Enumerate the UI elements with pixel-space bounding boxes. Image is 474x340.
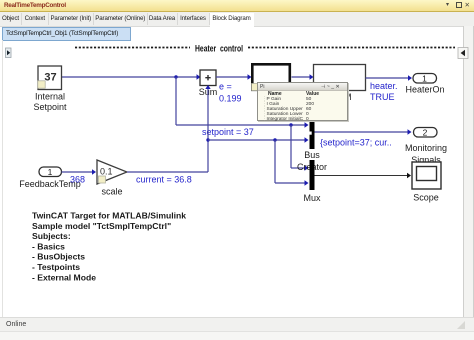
svg-text:2: 2: [423, 127, 428, 137]
svg-text:1: 1: [422, 73, 427, 83]
svg-text:Sample model "TctSmplTempCtrl": Sample model "TctSmplTempCtrl": [32, 221, 171, 231]
sum block Sum: [199, 70, 218, 97]
svg-text:HeaterOn: HeaterOn: [405, 85, 444, 95]
bus creator bar: [310, 119, 315, 149]
svg-text:Subjects:: Subjects:: [32, 231, 71, 241]
svg-text:heater.: heater.: [370, 81, 398, 91]
status bar: [0, 317, 474, 332]
block PWM: [314, 65, 366, 103]
svg-text:TRUE: TRUE: [370, 92, 395, 102]
svg-text:368: 368: [70, 175, 85, 185]
tab strip: [0, 12, 474, 27]
wire current branch to Mux input 2: [275, 140, 309, 186]
left pane toggle button: [6, 48, 12, 58]
svg-text:- BusObjects: - BusObjects: [32, 252, 85, 262]
svg-text:- Basics: - Basics: [32, 241, 65, 251]
heading Heater control: [75, 44, 455, 54]
svg-text:Scope: Scope: [413, 193, 439, 203]
label Bus Creator: [297, 150, 327, 172]
block Internal Setpoint: [33, 66, 67, 112]
annotation text block: [32, 211, 186, 283]
selected object row: [2, 27, 131, 41]
tooltip popup PI parameters: [257, 82, 348, 121]
window buttons: [446, 1, 449, 8]
svg-text:0.199: 0.199: [219, 94, 242, 104]
mux bar: [310, 160, 315, 190]
wire setpoint branch to Mux input 1: [291, 125, 309, 171]
svg-text:e =: e =: [219, 82, 232, 92]
svg-text:Mux: Mux: [303, 193, 321, 203]
svg-text:scale: scale: [101, 187, 122, 197]
svg-text:Setpoint: Setpoint: [33, 102, 67, 112]
svg-text:- External Mode: - External Mode: [32, 272, 96, 282]
wire PWM to HeaterOn outport: [366, 75, 413, 80]
svg-text:{setpoint=37; cur..: {setpoint=37; cur..: [320, 138, 392, 148]
wire PI to PWM: [292, 74, 314, 79]
wire setpoint branch down and right to Bus Creator: [176, 77, 309, 128]
wire Internal Setpoint to Sum: [62, 74, 201, 79]
popup title bar: [258, 83, 347, 91]
svg-text:Internal: Internal: [35, 92, 65, 102]
wire Bus Creator to Monitoring outport: [315, 129, 412, 134]
svg-text:setpoint = 37: setpoint = 37: [202, 127, 254, 137]
outport 2 Monitoring Signals: [405, 127, 447, 165]
svg-text:TwinCAT Target for MATLAB/Simu: TwinCAT Target for MATLAB/Simulink: [32, 211, 186, 221]
right scroll strip: [463, 26, 474, 331]
window title bar: [0, 0, 474, 12]
right scroll button: [458, 48, 468, 59]
svg-text:Bus: Bus: [304, 150, 320, 160]
svg-text:current = 36.8: current = 36.8: [136, 175, 192, 185]
wire Mux to Scope: [315, 173, 412, 178]
svg-text:- Testpoints: - Testpoints: [32, 262, 80, 272]
wire current branch to Bus Creator input 2: [206, 137, 308, 142]
gain block scale: [97, 160, 127, 197]
wire scale to Sum bottom input: [127, 85, 211, 172]
wire FeedbackTemp to scale: [62, 169, 97, 174]
scope block: [412, 162, 441, 203]
block PI controller: [252, 64, 290, 90]
svg-text:37: 37: [44, 72, 56, 84]
inport 1 FeedbackTemp: [19, 167, 81, 189]
svg-text:Heater control: Heater control: [195, 44, 243, 54]
svg-text:1: 1: [48, 167, 53, 177]
wire Sum to PI: [216, 74, 252, 79]
outport 1 HeaterOn: [405, 73, 444, 94]
popup grid: [268, 91, 282, 97]
svg-text:0.1: 0.1: [100, 167, 113, 177]
resize grip bottom right: [457, 321, 465, 329]
canvas left border: [2, 40, 3, 317]
svg-text:Monitoring: Monitoring: [405, 143, 447, 153]
